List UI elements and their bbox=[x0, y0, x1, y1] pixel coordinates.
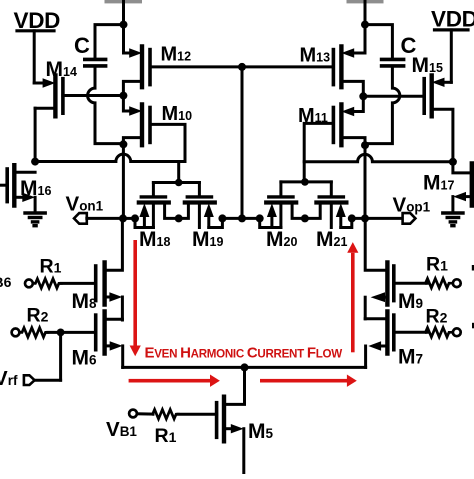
resistor R1 (right) bbox=[426, 279, 452, 288]
svg-text:R1: R1 bbox=[40, 255, 62, 277]
wire: left spine down through hop to Von1 rail bbox=[122, 144, 125, 218]
node: Vop1 / right spine junction bbox=[361, 214, 369, 222]
node: gate rail junction (left pair) bbox=[175, 179, 183, 187]
node: C1/M10-drain junction bbox=[119, 140, 127, 148]
wire: M18/M19 gate rail bbox=[153, 181, 199, 184]
svg-text:R1: R1 bbox=[155, 425, 177, 447]
svg-text:M21: M21 bbox=[316, 228, 347, 251]
svg-text:Vop1: Vop1 bbox=[393, 194, 431, 217]
transistor M16 (NMOS) bbox=[0, 165, 35, 212]
wire: M20/M21 gate rail bbox=[281, 180, 331, 183]
wire: to capacitor C (right) top plate bbox=[365, 25, 392, 58]
svg-text:M10: M10 bbox=[162, 103, 193, 125]
node: M18 drain / M19 source junction bbox=[175, 214, 183, 222]
ground symbol (left) bbox=[25, 213, 45, 226]
wire: M14/M16 drain net to trap gates, hop over left spine bbox=[35, 154, 185, 161]
transistor M13 (PMOS) bbox=[333, 47, 365, 94]
wire: C2 bottom plate down, hop over M15 gate wire, to node bbox=[367, 68, 400, 144]
node: junction top-left bbox=[120, 21, 128, 29]
capacitor C2 (right) bbox=[382, 59, 404, 66]
wire: Von1 to rail bbox=[87, 217, 122, 220]
wire: VB1 circle to R1 bbox=[137, 412, 153, 415]
node: junction top-right bbox=[361, 21, 369, 29]
svg-text:M6: M6 bbox=[72, 346, 98, 369]
svg-text:M8: M8 bbox=[72, 290, 98, 313]
svg-text:M14: M14 bbox=[46, 58, 77, 81]
svg-text:M5: M5 bbox=[248, 420, 274, 443]
power rail bar VDD (right) bbox=[435, 28, 469, 31]
terminal circle (right R1) bbox=[453, 279, 461, 287]
wire: R1 to M8 gate bbox=[61, 282, 95, 285]
transistor M6 (NMOS) bbox=[96, 312, 123, 368]
wire: Vop1 rail to pin bbox=[365, 217, 402, 220]
wire: right spine down through hop to Vop1 rail bbox=[364, 145, 367, 218]
svg-text:M18: M18 bbox=[139, 228, 170, 251]
svg-text:M15: M15 bbox=[412, 54, 443, 77]
terminal circle VB1 bbox=[129, 410, 137, 418]
svg-text:C: C bbox=[74, 33, 90, 58]
capacitor C1 (left) bbox=[85, 59, 106, 66]
resistor R1 (bottom) bbox=[153, 410, 179, 419]
wire: tail node line bbox=[123, 366, 366, 369]
node: gate rail junction (right pair) bbox=[301, 178, 309, 186]
wire: R2 to M6 gate bbox=[48, 331, 96, 334]
cropped label fragment (right edge, R1 row) bbox=[472, 265, 474, 271]
input terminal circle (left R1) bbox=[25, 280, 33, 288]
node: M16/M14 drain junction bbox=[31, 158, 39, 166]
node: M18 source hook junction bbox=[131, 214, 139, 222]
wire: spine to M13 source bbox=[364, 25, 367, 53]
svg-text:R2: R2 bbox=[27, 304, 49, 326]
node: center rail junction bbox=[238, 63, 246, 71]
svg-text:M20: M20 bbox=[266, 228, 297, 251]
svg-text:M19: M19 bbox=[192, 228, 223, 251]
node: C2/M11-drain junction bbox=[361, 141, 369, 149]
transistor M21 (trap nmos) bbox=[305, 182, 352, 228]
wire: M5 drain jog bbox=[224, 367, 245, 404]
svg-text:M17: M17 bbox=[423, 171, 454, 194]
svg-text:VB1: VB1 bbox=[106, 418, 137, 441]
terminal circle (right R2) bbox=[453, 328, 461, 336]
svg-text:B6: B6 bbox=[0, 274, 12, 290]
svg-text:R2: R2 bbox=[426, 306, 448, 328]
wire: M12/M13 drain rail with gates bbox=[150, 65, 333, 68]
svg-text:M16: M16 bbox=[20, 177, 51, 200]
transistor M18 (trap nmos) bbox=[135, 183, 179, 228]
svg-text:R1: R1 bbox=[426, 254, 448, 276]
red arrow: tail current right (right segment) bbox=[260, 375, 357, 387]
svg-text:Vrf: Vrf bbox=[0, 367, 18, 390]
transistor M8 (NMOS) bbox=[96, 221, 123, 321]
wire: M5 gate to R1 bbox=[178, 413, 217, 416]
transistor M5 (NMOS) bbox=[217, 397, 244, 474]
wire: VDD right stem bbox=[450, 30, 453, 82]
transistor M14 (PMOS) bbox=[34, 76, 121, 162]
wire: rail segment to M18 hook bbox=[123, 217, 135, 220]
node: Von1 / left spine junction bbox=[119, 214, 127, 222]
resistor R2 (right) bbox=[426, 328, 452, 337]
red arrow: even harmonic down (left) bbox=[130, 240, 141, 356]
transistor M19 (trap nmos) bbox=[179, 183, 223, 228]
wire: spine to M12 source bbox=[122, 25, 125, 53]
transistor M17 (NMOS, cropped at edge) bbox=[453, 162, 472, 212]
input pin Vrf bbox=[24, 375, 35, 385]
svg-text:M7: M7 bbox=[398, 346, 423, 369]
wire: rail segment M21 to right spine bbox=[352, 217, 365, 220]
transistor M7 (NMOS) bbox=[365, 312, 394, 368]
wire: M9 gate to R1 bbox=[394, 282, 427, 285]
wire: feed to M18/M19 gate rail bbox=[177, 162, 180, 183]
red arrow: tail current right (left segment) bbox=[129, 375, 220, 387]
wire: M7 gate to R2 bbox=[394, 331, 427, 334]
wire: rail segment M19 to M20 bbox=[222, 217, 259, 220]
transistor M15 (PMOS) bbox=[367, 76, 453, 162]
transistor M11 (PMOS) bbox=[304, 98, 365, 182]
transistor M9 (NMOS) bbox=[365, 221, 394, 319]
node: M21 hook junction bbox=[348, 214, 356, 222]
wire: center vertical to output rail bbox=[241, 67, 244, 219]
resistor R2 (left) bbox=[20, 328, 48, 337]
cropped grey element stub (top right) bbox=[347, 0, 384, 3]
svg-text:M9: M9 bbox=[398, 290, 423, 313]
wire: top-left spine from stub down bbox=[122, 0, 125, 25]
node: M13 drain / M15 gate junction bbox=[359, 92, 367, 100]
cropped grey element stub (top left) bbox=[105, 0, 143, 3]
node: tail center junction bbox=[241, 363, 249, 371]
node: center / output rail junction bbox=[238, 214, 246, 222]
ground symbol (right) bbox=[443, 213, 463, 226]
node: M19 hook junction bbox=[218, 214, 226, 222]
wire: top-right spine from stub down bbox=[364, 0, 367, 25]
svg-text:M12: M12 bbox=[161, 44, 192, 66]
resistor R1 (left) bbox=[33, 279, 61, 288]
transistor M20 (trap nmos) bbox=[260, 182, 305, 228]
cropped label fragment (right edge, R2 row) bbox=[472, 323, 474, 329]
node: M20 hook junction bbox=[256, 214, 264, 222]
output pin Von1 bbox=[74, 213, 87, 224]
svg-text:M11: M11 bbox=[298, 105, 328, 127]
node: M15 drain / M17 junction bbox=[449, 158, 457, 166]
transistor M12 (PMOS) bbox=[123, 47, 150, 94]
node: M20 drain / M21 source junction bbox=[301, 214, 309, 222]
wire: Vrf pin to riser bbox=[34, 379, 60, 382]
node: Vrf / R2 junction bbox=[57, 329, 65, 337]
red arrow: even harmonic up (right) bbox=[347, 242, 358, 352]
power rail bar VDD (left) bbox=[17, 29, 54, 32]
wire: Vrf riser bbox=[59, 332, 62, 380]
wire: M15/M17 drain net to trap gates, hop over right spine bbox=[304, 154, 453, 161]
wire: C1 bottom plate down, hop over M14 gate wire, to node bbox=[88, 68, 122, 144]
svg-text:M13: M13 bbox=[300, 45, 331, 67]
svg-text:VDD: VDD bbox=[431, 7, 474, 32]
output pin Vop1 bbox=[403, 213, 416, 224]
wire: to capacitor C (left) top plate bbox=[95, 25, 124, 58]
svg-text:EVEN HARMONIC CURRENT FLOW: EVEN HARMONIC CURRENT FLOW bbox=[145, 345, 343, 362]
input terminal circle (left R2) bbox=[12, 329, 20, 337]
wire: VDD left stem bbox=[33, 31, 36, 83]
transistor M10 (PMOS) bbox=[123, 98, 185, 162]
node: M12 drain / M14 gate junction bbox=[119, 92, 127, 100]
